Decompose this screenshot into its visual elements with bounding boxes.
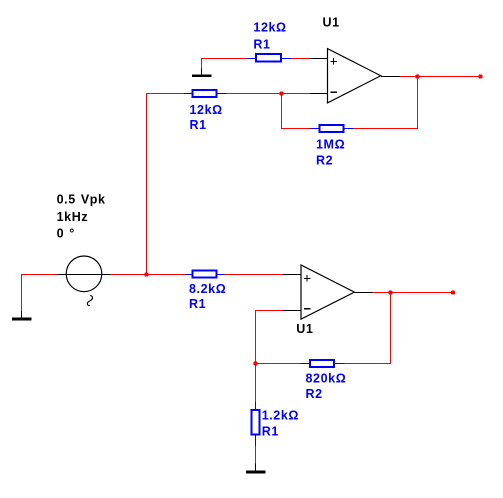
svg-text:1kHz: 1kHz: [57, 210, 89, 224]
svg-text:1MΩ: 1MΩ: [316, 138, 345, 152]
svg-text:R2: R2: [316, 153, 333, 167]
svg-text:0.5 Vpk: 0.5 Vpk: [57, 193, 106, 207]
svg-text:U1: U1: [296, 322, 313, 336]
svg-text:U1: U1: [323, 15, 340, 29]
svg-text:820kΩ: 820kΩ: [306, 372, 347, 386]
svg-text:8.2kΩ: 8.2kΩ: [189, 282, 226, 296]
svg-text:12kΩ: 12kΩ: [253, 21, 286, 35]
svg-text:1.2kΩ: 1.2kΩ: [262, 409, 299, 423]
svg-text:R2: R2: [306, 387, 323, 401]
svg-text:R1: R1: [253, 37, 270, 51]
svg-text:12kΩ: 12kΩ: [190, 103, 223, 117]
svg-text:R1: R1: [190, 118, 207, 132]
svg-text:0 °: 0 °: [57, 227, 75, 241]
svg-text:R1: R1: [262, 425, 279, 439]
svg-text:R1: R1: [189, 297, 206, 311]
